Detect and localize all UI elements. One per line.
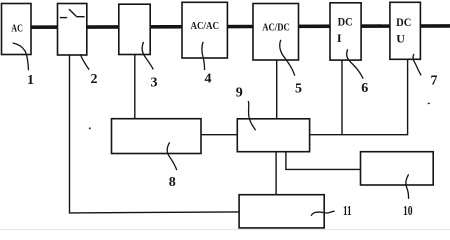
svg-text:11: 11 bbox=[343, 204, 352, 219]
svg-text:AC/DC: AC/DC bbox=[262, 22, 290, 33]
svg-text:10: 10 bbox=[403, 204, 413, 219]
scan edge shading bottom bbox=[0, 229, 450, 230]
wire: block 3 to block 8 bbox=[134, 55, 136, 119]
block 11 bbox=[239, 195, 324, 228]
svg-text:7: 7 bbox=[431, 74, 438, 89]
block 2: switch bbox=[58, 4, 87, 56]
leader to label 9 bbox=[248, 101, 255, 130]
leader to label 5 bbox=[280, 40, 295, 76]
block 9 bbox=[237, 119, 309, 152]
leader to label 10 bbox=[406, 174, 409, 199]
block 8 bbox=[112, 119, 202, 154]
leader to label 2 bbox=[80, 54, 89, 69]
svg-text:6: 6 bbox=[361, 81, 368, 96]
block 5: AC/DC converter bbox=[253, 4, 299, 61]
stray ink dot left bbox=[89, 127, 91, 129]
wire: block 2 down and across to block 11 bbox=[70, 55, 240, 213]
wire: block 8 to block 9 bbox=[201, 134, 237, 136]
leader to label 1 bbox=[13, 43, 29, 70]
svg-text:4: 4 bbox=[205, 71, 212, 86]
svg-text:I: I bbox=[337, 31, 342, 45]
wire: block 7 down bbox=[407, 59, 409, 135]
svg-text:2: 2 bbox=[91, 72, 98, 87]
block 1: AC source bbox=[2, 4, 32, 55]
svg-text:5: 5 bbox=[295, 81, 302, 96]
svg-text:1: 1 bbox=[27, 73, 34, 88]
svg-text:AC/AC: AC/AC bbox=[191, 21, 220, 32]
leader to label 4 bbox=[202, 42, 205, 70]
block 10 bbox=[361, 152, 434, 185]
block 6: DC I sensor bbox=[330, 3, 361, 60]
wire: block 9 to block 11 bbox=[275, 152, 277, 195]
wire: AC supply bus bbox=[30, 26, 450, 27]
leader to label 11 bbox=[311, 211, 335, 216]
svg-text:3: 3 bbox=[151, 76, 158, 91]
wire: block 6 down bbox=[341, 60, 343, 135]
block 3 bbox=[119, 4, 150, 54]
block 7: DC U sensor bbox=[390, 2, 421, 59]
wire: block 5 to block 9 bbox=[276, 60, 278, 119]
svg-text:U: U bbox=[396, 32, 405, 46]
wire: block 9 down and across to block 10 bbox=[286, 152, 361, 170]
svg-text:8: 8 bbox=[169, 175, 176, 190]
wire: block 9 right to sensors junction bbox=[310, 134, 408, 136]
leader to label 6 bbox=[347, 49, 364, 78]
svg-text:9: 9 bbox=[236, 86, 243, 101]
leader to label 8 bbox=[167, 142, 176, 170]
leader to label 7 bbox=[413, 54, 421, 76]
svg-text:DC: DC bbox=[338, 14, 353, 28]
svg-text:DC: DC bbox=[396, 15, 411, 29]
stray ink dot right bbox=[428, 103, 430, 104]
svg-text:AC: AC bbox=[11, 24, 23, 35]
leader to label 3 bbox=[142, 42, 153, 70]
block 4: AC/AC converter bbox=[182, 2, 227, 58]
